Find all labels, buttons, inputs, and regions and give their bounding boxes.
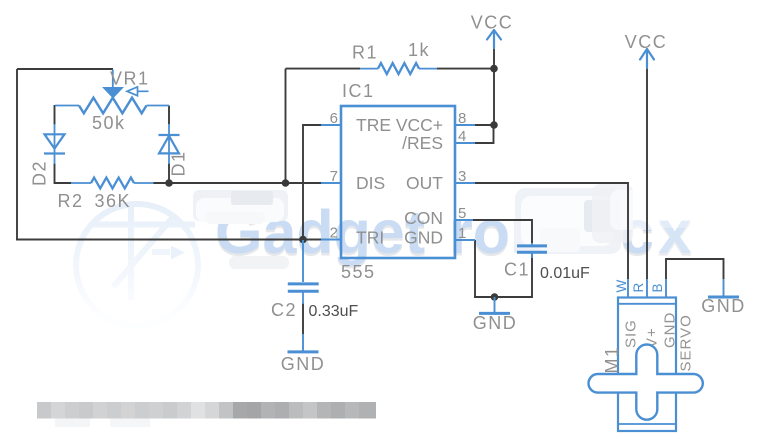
svg-text:DIS: DIS xyxy=(356,173,385,193)
junction dot pin8 xyxy=(490,121,498,129)
svg-text:VCC: VCC xyxy=(625,32,668,52)
wire C1 bottom xyxy=(474,254,532,298)
svg-text:VR1: VR1 xyxy=(110,69,150,89)
wire pin 1 down xyxy=(474,240,476,297)
svg-text:TRE: TRE xyxy=(356,115,391,135)
wire bridge right leg xyxy=(168,106,170,125)
pin 7 stub xyxy=(321,182,341,184)
wire top-left horizontal xyxy=(17,68,113,70)
white smudge blob faint lower xyxy=(229,256,289,269)
svg-text:OUT: OUT xyxy=(406,173,443,193)
ground GND under C2 xyxy=(288,334,319,352)
wire bridge bottom right to pin 7 xyxy=(154,182,322,184)
watermark globe logo xyxy=(76,204,198,326)
capacitor C1 xyxy=(517,243,547,258)
wire OUT to servo xyxy=(474,183,628,279)
diode D1 xyxy=(159,124,180,164)
wire VCC vertical to pin8 node xyxy=(493,48,495,126)
wire bridge right leg lower xyxy=(168,163,170,183)
junction dot VCC R1 xyxy=(490,65,498,73)
wire servo B to GND xyxy=(666,259,724,279)
power VCC right xyxy=(640,49,654,68)
svg-text:7: 7 xyxy=(330,168,338,185)
pin 3 stub xyxy=(455,182,475,184)
svg-text:TRI: TRI xyxy=(356,228,384,248)
svg-text:4: 4 xyxy=(458,128,466,145)
wire R1 left leg xyxy=(286,69,361,183)
wire bridge left leg xyxy=(54,105,56,125)
wire pin 8 xyxy=(474,124,494,126)
servo connector M1 pins W R B stubs xyxy=(628,279,666,298)
wire pin 5 to C1 xyxy=(473,220,532,243)
junction dot TRI xyxy=(299,236,307,244)
pin 2 stub xyxy=(321,239,341,241)
svg-text:D2: D2 xyxy=(30,160,50,186)
svg-text:GND: GND xyxy=(404,228,443,248)
pin 4 stub xyxy=(455,142,475,144)
svg-text:555: 555 xyxy=(341,262,376,282)
white smudge blob right xyxy=(592,184,695,254)
svg-text:D1: D1 xyxy=(169,150,189,176)
wire TRE to TRI vertical xyxy=(303,125,321,240)
capacitor C2 xyxy=(288,240,319,304)
svg-text:1k: 1k xyxy=(408,40,430,60)
wire VCC2 to servo R xyxy=(646,68,648,279)
white smudge blob left xyxy=(193,190,288,224)
op IC1 555 timer box xyxy=(341,106,455,258)
svg-text:/RES: /RES xyxy=(402,133,443,153)
servo horn cross xyxy=(589,345,703,420)
diode D2 xyxy=(44,124,65,164)
junction dot R1 leg DIS xyxy=(282,179,290,187)
svg-text:C2: C2 xyxy=(271,300,297,320)
svg-text:0.33uF: 0.33uF xyxy=(309,303,359,320)
watermark text shadow xyxy=(215,201,696,269)
pin 8 stub xyxy=(455,124,475,126)
svg-text:SIG: SIG xyxy=(623,319,640,348)
svg-text:R2: R2 xyxy=(58,191,84,211)
svg-text:3: 3 xyxy=(458,168,466,185)
svg-text:0.01uF: 0.01uF xyxy=(540,265,590,282)
ground GND under C1 xyxy=(479,297,510,313)
wire left vertical xyxy=(16,69,18,241)
svg-text:R1: R1 xyxy=(352,43,378,63)
svg-text:GND: GND xyxy=(473,313,518,333)
pin 1 stub xyxy=(455,239,475,241)
wire bridge left leg lower xyxy=(54,163,56,184)
svg-text:50k: 50k xyxy=(92,113,126,133)
pin 5 stub xyxy=(455,219,473,221)
resistor R1 xyxy=(360,63,437,74)
svg-text:C1: C1 xyxy=(504,260,530,280)
svg-text:1: 1 xyxy=(458,225,466,242)
svg-text:GND: GND xyxy=(662,312,679,348)
svg-text:6: 6 xyxy=(330,110,338,127)
svg-text:GND: GND xyxy=(701,296,746,316)
wire TRI net bottom horizontal xyxy=(16,239,321,241)
ground GND right xyxy=(708,279,739,297)
wire C2 lower xyxy=(302,303,304,334)
svg-text:IC1: IC1 xyxy=(342,81,375,101)
svg-text:CON: CON xyxy=(404,208,443,228)
servo M1 body xyxy=(618,298,676,432)
svg-text:R: R xyxy=(631,283,646,293)
svg-text:VCC: VCC xyxy=(471,13,514,33)
wire R1 right to VCC node xyxy=(437,68,494,70)
censored caption strip xyxy=(37,402,376,427)
svg-text:36K: 36K xyxy=(95,191,132,211)
white smudge blob middle xyxy=(515,188,621,254)
svg-text:SERVO: SERVO xyxy=(678,314,695,371)
pin 6 stub xyxy=(321,124,341,126)
potentiometer VR1 xyxy=(55,70,169,114)
wire bridge bottom left xyxy=(55,182,72,184)
watermark text Gadgetronicx xyxy=(215,198,696,266)
junction dot C1 GND xyxy=(491,293,499,301)
svg-text:8: 8 xyxy=(458,110,466,127)
power VCC left xyxy=(487,30,501,48)
junction dot bridge-D1 xyxy=(165,179,173,187)
svg-text:5: 5 xyxy=(458,205,466,222)
svg-text:W: W xyxy=(614,280,629,293)
svg-text:GND: GND xyxy=(281,354,326,374)
svg-text:VCC+: VCC+ xyxy=(396,115,443,135)
svg-text:2: 2 xyxy=(330,225,338,242)
svg-text:B: B xyxy=(650,283,665,292)
resistor R2 xyxy=(71,178,154,189)
wire pin 4 xyxy=(474,126,494,143)
svg-text:M1: M1 xyxy=(602,345,622,373)
